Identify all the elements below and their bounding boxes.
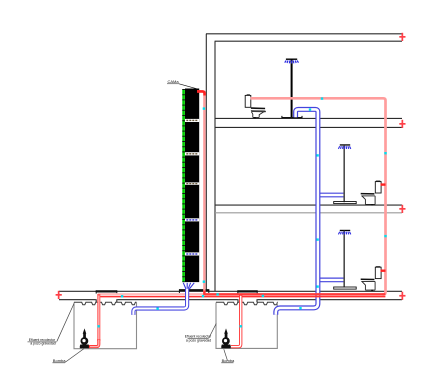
svg-text:CAMa: CAMa — [168, 79, 180, 84]
shaft discharge pipe (left vertical) — [197, 91, 204, 294]
left pit walls — [74, 303, 137, 349]
left pump discharge riser — [97, 294, 100, 341]
pipe sleeve bar center — [179, 289, 209, 293]
shaft drain funnel — [183, 283, 194, 289]
pipe sleeve bar left — [96, 290, 117, 293]
right pump — [221, 328, 231, 348]
shower floor3 — [334, 230, 357, 289]
roof slab bottom line — [215, 40, 402, 42]
ventilation shaft column green edge — [182, 89, 185, 282]
shower floor2 — [334, 144, 357, 203]
toilet floor1 (facing right) — [245, 94, 265, 118]
ground slab top line — [59, 290, 402, 292]
pipe sleeve bar right — [237, 290, 257, 293]
toilet supply stub floor3 — [381, 270, 386, 272]
hot supply horizontal + riser — [251, 98, 386, 294]
right pit earth bumps — [216, 302, 277, 305]
right pit walls — [216, 303, 277, 349]
building outline — [59, 34, 402, 292]
svg-text:a pozo gravedad: a pozo gravedad — [186, 338, 211, 342]
slab2 top line — [215, 117, 402, 119]
roof slab top line — [206, 33, 402, 35]
slab3 bottom line (lighter) — [215, 212, 402, 214]
gap marks dark — [186, 120, 197, 185]
ground return thin line — [98, 296, 386, 298]
left wall outer — [205, 34, 207, 292]
svg-text:a pozo gravedad: a pozo gravedad — [30, 342, 55, 346]
toilet floor3 (facing left) — [361, 266, 381, 291]
slab2 bottom line — [215, 126, 402, 128]
svg-text:Bomba: Bomba — [222, 358, 235, 363]
left pump red elbow — [89, 339, 99, 347]
ground pressure line pale segment — [98, 293, 205, 296]
left pit earth bumps — [74, 302, 137, 305]
slab3 top line — [215, 204, 402, 206]
red continuation crosses — [56, 33, 406, 300]
left pump — [80, 328, 90, 348]
cold water branch floor2 (under riser) — [318, 193, 344, 198]
shaft column body — [185, 89, 199, 283]
gap marks blue — [186, 219, 197, 255]
left wall inner — [214, 41, 216, 291]
shower floor1 — [282, 59, 302, 118]
shaft drain to left pit — [133, 289, 187, 315]
cold water top branch and riser — [276, 109, 318, 314]
right pump discharge — [231, 294, 241, 347]
shaft column joint gaps — [185, 119, 199, 256]
toilet floor2 (facing left) — [361, 181, 381, 206]
fitting dots — [97, 97, 386, 327]
svg-text:Bomba: Bomba — [53, 358, 66, 363]
ground slab bottom line — [59, 299, 402, 302]
cold water branch floor3 (under riser) — [318, 277, 344, 282]
toilet supply stub floor2 — [381, 183, 386, 185]
ground pressure line bright segment — [205, 293, 386, 296]
